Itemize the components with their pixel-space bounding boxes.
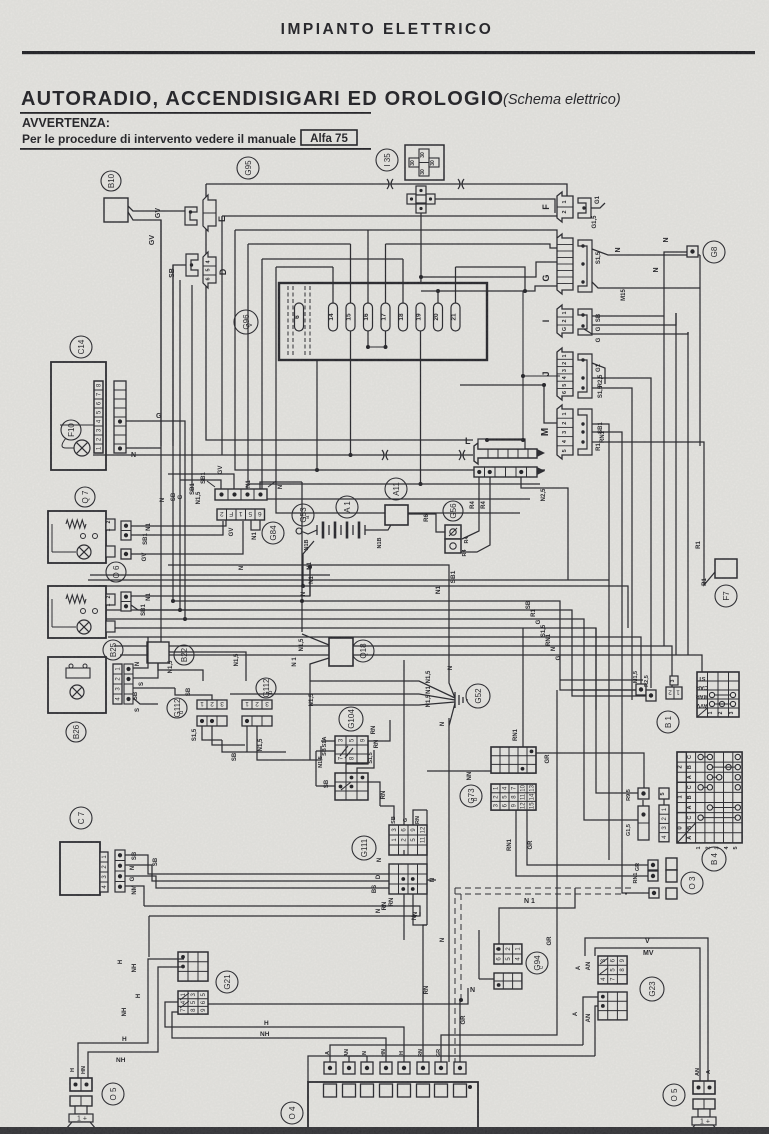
connector G112d pins <box>197 700 227 709</box>
Q7 mate connectors <box>121 521 131 540</box>
circled label G53a <box>292 504 314 526</box>
connector G112d mate <box>197 716 227 726</box>
lighter unit B26 box <box>48 657 106 713</box>
circled label G104 <box>339 707 363 731</box>
wires from M mate <box>592 424 609 601</box>
dashed wires <box>455 887 633 889</box>
circled label G84 <box>262 522 284 544</box>
wires G23 left <box>583 997 598 1045</box>
left area long wires <box>168 565 449 675</box>
circled label B4 <box>702 847 726 871</box>
connector G56 b <box>445 539 461 553</box>
wires from Q4 connectors <box>330 1045 583 1062</box>
antenna unit B10 <box>104 198 128 222</box>
long wire H to Q4 <box>165 1002 404 1062</box>
radio pin 20 <box>434 303 443 331</box>
connector O3 RN1 <box>648 871 658 881</box>
circled label G56 <box>443 501 463 521</box>
connector G104 lower grid <box>335 773 368 800</box>
wire A11 to G56 <box>408 514 445 532</box>
circled label G95 <box>237 157 259 179</box>
radio main unit Q4 box <box>308 1082 478 1134</box>
connector J mate <box>578 354 592 398</box>
wire junction <box>437 290 439 292</box>
wires below G73 <box>516 810 648 876</box>
Q4 terminal squares <box>324 1084 337 1097</box>
wires from J mate <box>592 363 605 384</box>
connector G56 a <box>445 525 461 539</box>
connector L mate <box>474 467 537 477</box>
circled label A11 <box>385 478 407 500</box>
circled label Q7 <box>75 487 95 507</box>
wire N vertical to Q4 <box>448 860 450 1062</box>
vertical right frame wires <box>301 482 303 632</box>
circled label Q4 <box>281 1102 303 1124</box>
dashed internal columns <box>287 286 289 357</box>
radio pin 16 <box>364 303 373 331</box>
wire fan N <box>114 646 672 687</box>
wires G112b down <box>246 726 248 752</box>
connector J <box>557 348 573 400</box>
rule under note <box>20 148 371 150</box>
circled label B22 <box>174 645 194 665</box>
connector I <box>557 305 573 337</box>
cigar lighter Q7 box <box>48 511 106 563</box>
circled label B25 <box>103 640 123 660</box>
break symbol <box>458 179 464 189</box>
wire O6 SB1 <box>131 605 230 610</box>
circled label B26 <box>66 722 86 742</box>
circled label Q18 <box>352 640 374 662</box>
cigar lighter O6 box <box>48 586 106 638</box>
radio pin 15 <box>346 303 355 331</box>
radio pin wires down <box>367 331 369 347</box>
radio pin 14 <box>329 303 338 331</box>
wire fan SB <box>173 601 636 690</box>
wire NN to G73 <box>427 770 491 772</box>
connector E <box>203 195 216 231</box>
connector D mate <box>186 254 198 276</box>
circled label B1 <box>657 711 679 733</box>
Q4 connector dot squares <box>324 1062 336 1074</box>
connector E mate <box>185 207 197 225</box>
connector M mate <box>578 409 592 455</box>
long wire NH to Q4 <box>172 1012 386 1062</box>
wire O6 N1 <box>131 567 310 596</box>
battery G53 <box>317 522 365 539</box>
wire L top to J connector column <box>522 291 524 440</box>
connector M <box>557 405 573 459</box>
junction cross connector below I35 <box>407 186 435 213</box>
clock C7 box <box>60 842 100 895</box>
circled label B10 <box>101 171 121 191</box>
radio pin 6 <box>295 303 304 331</box>
circled label O6 <box>106 562 126 582</box>
wire cross down to radio pin 19 <box>420 213 423 302</box>
connector L <box>474 443 537 464</box>
wire fan R1 <box>90 610 646 696</box>
header rule <box>22 51 755 54</box>
wire Q7 SB1 <box>131 521 223 535</box>
B25 pin strip <box>113 664 122 704</box>
Q7 tab connectors <box>106 519 115 530</box>
connector O3 GR <box>648 860 658 870</box>
fuse F7 box <box>715 559 737 578</box>
amplifier A11 box <box>385 505 408 525</box>
wire RN1 into G73 <box>522 628 524 747</box>
wire G from C14 <box>126 421 185 619</box>
C14 pin strip <box>94 381 103 453</box>
B25 mate strip <box>124 664 133 704</box>
cell 5 <box>659 788 669 799</box>
circled label G112b <box>256 678 276 698</box>
connector G21 upper grid <box>178 952 208 981</box>
wire battery N1 down-left <box>303 541 314 586</box>
wires from I mate <box>592 315 664 317</box>
wire bundle verticals <box>172 265 174 601</box>
fuse box I35 <box>405 145 444 180</box>
wire fan S1,5 <box>102 628 596 710</box>
connector I mate <box>578 309 592 335</box>
connector G112b pins <box>242 700 272 709</box>
wire N from C14 <box>126 447 161 449</box>
wires from B25 <box>133 637 148 668</box>
wire N1,5 right <box>169 652 246 681</box>
wire M strip branch <box>460 385 557 423</box>
wire fan G2 <box>120 655 702 672</box>
wire H from G21 right <box>208 988 468 1004</box>
circled label G111 <box>352 836 376 860</box>
connector R2,5 <box>646 690 656 701</box>
wires to Q18 <box>302 634 329 645</box>
wire N1,5 g112b <box>257 726 310 760</box>
connector M1,5 <box>636 684 646 695</box>
wires out of G84 <box>251 520 260 530</box>
break symbol <box>387 179 393 189</box>
wire cross to F pin1 <box>435 199 555 213</box>
wire battery to A11 <box>365 523 392 530</box>
vertical bus right <box>663 316 665 646</box>
connector G8 square <box>687 246 698 257</box>
wires converging to ground <box>310 681 455 698</box>
connector 3/2/1 <box>666 687 682 699</box>
circled label G8 <box>703 241 725 263</box>
connector D <box>203 252 216 288</box>
connector G84 mate <box>215 489 267 500</box>
wire N down <box>144 905 395 907</box>
Alfa 75 box <box>301 130 357 145</box>
connector G <box>557 234 573 294</box>
circled label A1 <box>336 496 358 518</box>
loudspeaker O5 <box>693 1081 715 1094</box>
connector G73 upper grid <box>491 747 536 773</box>
lamp in C14 <box>74 440 90 456</box>
radio pin 21 <box>451 303 460 331</box>
circled label G94c <box>526 952 548 974</box>
connector G104 upper grid <box>335 736 368 763</box>
L top raised cells <box>478 439 525 449</box>
connector G mate <box>578 240 592 292</box>
wires from L mate R4 <box>462 477 479 539</box>
connector F <box>557 192 573 222</box>
connector G112b mate <box>242 716 272 726</box>
wire R1 to F7 <box>648 442 715 585</box>
wire M15 <box>592 282 700 288</box>
C14 mate strip <box>114 381 126 453</box>
wire S1,5 <box>592 249 700 255</box>
connector G94 upper grid <box>494 944 522 964</box>
fuse table B4 <box>677 752 742 843</box>
circled label O3 <box>681 872 703 894</box>
connector G73 lower grid <box>491 784 536 810</box>
wire fan RN1 <box>108 637 641 684</box>
wire N loop <box>149 912 420 916</box>
circled label C14 <box>70 336 92 358</box>
loudspeaker Q5 <box>70 1078 92 1091</box>
wires G111 lower <box>403 894 405 940</box>
C7 pin strip <box>100 852 108 892</box>
wire N from G8 <box>664 252 687 316</box>
wire Q7 GV <box>131 521 243 554</box>
wire RN from G104 <box>368 782 380 806</box>
wire N mid <box>395 906 420 916</box>
wires right tables <box>560 753 644 788</box>
rule under title <box>20 112 371 114</box>
circled label G52 <box>466 684 490 708</box>
O6 tab connectors <box>106 594 115 605</box>
wires G104 <box>321 740 335 742</box>
circled label G96 <box>234 310 258 334</box>
wire G1 from F mate <box>591 203 605 208</box>
circled label F7 <box>715 585 737 607</box>
relay Q18 box <box>329 638 353 666</box>
radio pin 19 <box>416 303 425 331</box>
battery terminal <box>296 528 317 534</box>
connector G111 upper grid <box>389 825 427 855</box>
nested routing rectangles left of radio <box>206 184 473 440</box>
O6 mate connector <box>121 592 131 611</box>
wire V <box>585 938 708 1081</box>
breaks on long wires <box>382 450 388 460</box>
wire GR from G73 <box>536 752 560 754</box>
connector below O3 <box>649 888 659 898</box>
long wire y455 <box>93 454 473 456</box>
radio unit box G96 <box>279 283 487 360</box>
wires G112 SB <box>175 688 212 700</box>
connector G94 lower grid <box>494 973 522 989</box>
wire B10 GV <box>128 206 185 211</box>
bottom scan band <box>0 1127 769 1134</box>
wire fan G <box>96 619 584 700</box>
wires G21 to Q5 <box>78 959 184 1078</box>
wires G112d down <box>202 726 222 740</box>
connector I35 circle label <box>376 149 398 171</box>
radio pin 17 <box>381 303 390 331</box>
circled label Q5 <box>102 1083 124 1105</box>
circled label G23 <box>640 977 664 1001</box>
connector G1,5 strip <box>638 806 649 840</box>
long wire N1 <box>96 586 628 592</box>
relay B22 box <box>147 642 169 663</box>
wire MV <box>595 948 700 1081</box>
connector G23 lower grid <box>598 992 627 1020</box>
connector G111 lower grid <box>389 864 427 894</box>
C7 mate strip <box>115 850 125 892</box>
junction dots on fan <box>183 617 187 621</box>
wires from C7 <box>125 855 389 874</box>
connector G21 lower grid <box>178 991 208 1014</box>
wires G94 <box>499 888 575 944</box>
circled label F10 <box>61 420 81 440</box>
switch table B1 <box>697 672 739 717</box>
wire N1,5 from B22 <box>158 663 203 681</box>
long wire SB1 <box>88 579 609 581</box>
wire SB from D mate <box>173 265 186 446</box>
connector G84 <box>217 509 265 520</box>
main feed wire y=184 <box>206 184 567 197</box>
circled label G112d <box>167 698 187 718</box>
wire Q7 N1 <box>131 520 226 526</box>
wire RN vertical <box>426 810 428 925</box>
clock unit C14 box <box>51 362 106 470</box>
radio pin wires up <box>332 267 334 303</box>
G84 bracket <box>207 481 276 487</box>
circled label G21 <box>216 971 238 993</box>
wires into G111 top <box>380 806 394 820</box>
wire from L mate N2,5 <box>521 477 568 580</box>
ground G52 <box>455 692 467 708</box>
circled label O5 <box>663 1084 685 1106</box>
wire N vertical long <box>403 660 405 850</box>
radio pin 18 <box>399 303 408 331</box>
connector G23 upper grid <box>598 956 627 984</box>
O3 mate boxes <box>666 858 677 870</box>
connector strip 1-4 <box>659 805 669 842</box>
connector F mate <box>578 198 591 218</box>
connector R9,5 <box>638 788 649 799</box>
wires into G84 <box>180 480 221 489</box>
circled label G73b <box>460 785 482 807</box>
circled label C7 <box>70 807 92 829</box>
